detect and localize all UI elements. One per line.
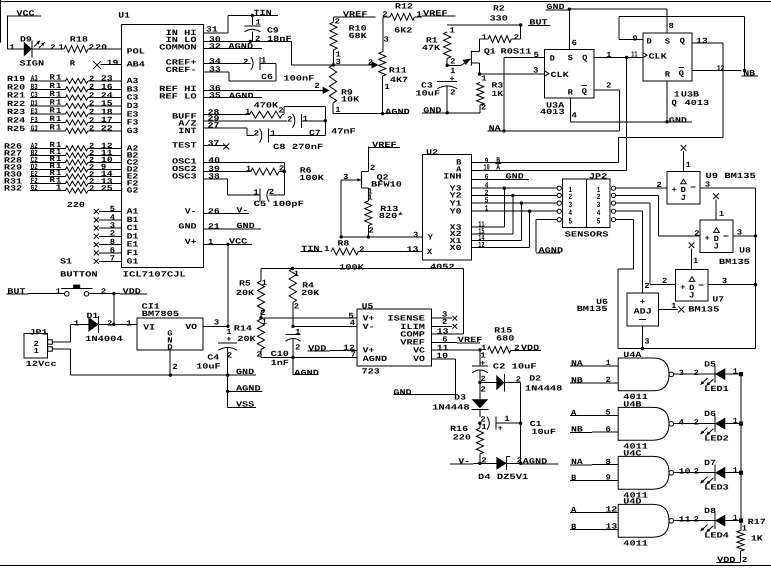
- svg-text:+: +: [680, 284, 686, 293]
- wire JP1 pin 1 to GND rail: [52, 349, 256, 375]
- wire V- row: [474, 462, 497, 464]
- svg-text:R14: R14: [234, 325, 253, 334]
- svg-text:NB: NB: [571, 376, 583, 385]
- svg-text:10: 10: [484, 164, 490, 173]
- junction gate/Y: [340, 235, 343, 238]
- svg-text:J: J: [681, 194, 686, 203]
- svg-text:JP2: JP2: [589, 172, 608, 181]
- svg-text:10uF: 10uF: [531, 428, 556, 437]
- resistor R17 1K: [737, 518, 766, 565]
- svg-text:2: 2: [89, 43, 95, 52]
- power label GND (U1 pin 21): [204, 222, 261, 232]
- svg-text:12: 12: [343, 344, 355, 353]
- svg-text:TIN: TIN: [301, 245, 320, 254]
- svg-text:G3: G3: [127, 127, 139, 136]
- no-connect U1 pin 2 D1: [94, 230, 122, 239]
- wire U4B output pin 4 to D6: [673, 418, 715, 427]
- svg-text:11: 11: [679, 516, 691, 525]
- wire U7 pin 3 to rail: [708, 277, 757, 286]
- power label VREF (R12 right): [422, 10, 456, 19]
- wire D6 to LED rail: [725, 417, 741, 426]
- wire JP2 pin 2 to U8: [616, 195, 700, 238]
- svg-text:31: 31: [206, 26, 218, 35]
- svg-text:18nF: 18nF: [267, 35, 292, 44]
- junction C7/R7/C8 node: [270, 119, 327, 135]
- svg-text:10: 10: [679, 468, 691, 477]
- junction Y3/X3: [503, 187, 506, 228]
- junction VC/C2: [478, 348, 481, 351]
- svg-text:R12: R12: [395, 2, 414, 11]
- wire U3B pin 12 Qbar to NB: [692, 64, 741, 73]
- wire U3A pin 5 D from NA: [504, 51, 545, 131]
- svg-text:S1: S1: [60, 258, 72, 267]
- wire U9 pin 3 to rail: [700, 180, 756, 189]
- svg-text:BUTTON: BUTTON: [60, 270, 98, 279]
- svg-text:5: 5: [569, 217, 573, 226]
- svg-text:1: 1: [485, 205, 489, 214]
- svg-text:13: 13: [606, 522, 618, 531]
- connector JP2 SENSORS: [557, 172, 616, 239]
- power label AGND (U5): [293, 357, 320, 378]
- svg-text:VDD: VDD: [308, 344, 327, 353]
- power label VDD (R17): [716, 556, 740, 565]
- resistor R16 220: [450, 423, 487, 466]
- junction R16/V-: [478, 462, 481, 465]
- svg-text:2: 2: [694, 369, 700, 378]
- svg-text:4: 4: [679, 419, 685, 428]
- junction C3/GND: [446, 111, 449, 114]
- wire Q1 collector node to U3A CLK pin 3: [480, 66, 545, 75]
- svg-text:2: 2: [294, 302, 300, 311]
- svg-text:9: 9: [632, 34, 638, 43]
- resistor R27 (net B2 to U1 pin 11): [4, 148, 121, 159]
- svg-text:4052: 4052: [430, 263, 455, 272]
- svg-text:47K: 47K: [422, 44, 441, 53]
- svg-text:D2: D2: [529, 375, 541, 384]
- junction LED rail D5: [739, 372, 743, 376]
- svg-text:5: 5: [597, 217, 601, 226]
- power label VDD (U5 pin 12): [308, 344, 357, 353]
- svg-text:1: 1: [253, 189, 259, 198]
- svg-text:8: 8: [669, 22, 675, 31]
- svg-text:U7: U7: [712, 295, 724, 304]
- ic U2 4052: [422, 148, 471, 272]
- svg-text:1: 1: [686, 161, 692, 170]
- svg-text:INT: INT: [178, 127, 197, 136]
- power label VREF (R10 top): [334, 10, 376, 19]
- junction LED rail D8: [739, 519, 743, 523]
- resistor R3 1K: [477, 74, 504, 113]
- svg-text:2: 2: [694, 515, 700, 524]
- svg-text:U4C: U4C: [623, 450, 642, 459]
- svg-text:REF LO: REF LO: [159, 93, 197, 102]
- switch S1 BUTTON label: [60, 258, 98, 280]
- svg-text:2: 2: [606, 82, 612, 91]
- svg-text:12: 12: [717, 64, 725, 73]
- svg-text:OSC3: OSC3: [172, 172, 197, 181]
- svg-text:2: 2: [295, 344, 301, 353]
- wire U2 Y0 pin 1 to JP2: [471, 205, 557, 214]
- junction R6/OSC1/C5: [283, 170, 286, 195]
- wire U3B pin 1 R to GND: [666, 81, 668, 122]
- svg-text:AB4: AB4: [127, 61, 146, 70]
- junction TIN / C9: [251, 14, 254, 17]
- diode D3 1N4448: [432, 382, 488, 417]
- resistor R6 100K (OSC1-OSC2): [204, 164, 325, 183]
- resistor R13 820*: [365, 194, 404, 237]
- svg-text:B: B: [571, 523, 577, 532]
- wire LED common rail: [740, 374, 742, 530]
- wire U3B pin 9 D feedback: [619, 16, 745, 70]
- resistor R7 470K (pin 28 BUFF): [204, 102, 326, 121]
- wire U1 pin 34 CREF+ to C6: [204, 58, 251, 67]
- svg-text:2: 2: [481, 104, 487, 113]
- svg-text:2: 2: [606, 376, 612, 385]
- diode D1 1N4004: [85, 312, 123, 344]
- junction GND/U3A S: [568, 8, 571, 11]
- svg-text:6K2: 6K2: [394, 27, 413, 36]
- resistor R1 47K: [422, 32, 456, 67]
- nand gate U4C 4011: [618, 450, 673, 501]
- svg-text:12: 12: [606, 506, 618, 515]
- svg-text:12Vcc: 12Vcc: [26, 360, 57, 369]
- svg-text:D: D: [550, 55, 556, 64]
- svg-text:VO: VO: [185, 323, 197, 332]
- resistor R2 330: [480, 5, 521, 43]
- svg-text:R: R: [568, 89, 574, 98]
- junction Y2/X2: [511, 194, 514, 234]
- svg-text:10uF: 10uF: [416, 90, 441, 99]
- svg-text:1N4448: 1N4448: [525, 385, 563, 394]
- junction LED rail D7: [739, 471, 743, 475]
- svg-text:7: 7: [110, 255, 116, 264]
- capacitor C10 1nF: [271, 328, 301, 368]
- led D6 LED2: [701, 410, 730, 444]
- no-connect U9 pin 1: [681, 145, 691, 171]
- net label V- (U1 pin 26): [204, 207, 249, 217]
- wire U1 pin 30 IN LO to R10/R11 node: [204, 35, 334, 65]
- resistor R23 (net E3 to U1 pin 18): [7, 107, 121, 118]
- svg-text:LED3: LED3: [704, 484, 729, 493]
- power label AGND (bottom): [226, 384, 262, 393]
- capacitor C6 100nF: [243, 57, 315, 84]
- resistor R5 20K: [236, 268, 267, 318]
- svg-text:10K: 10K: [341, 96, 360, 105]
- svg-text:27: 27: [208, 122, 220, 131]
- wire C6 to U1 pin 33 CREF-: [204, 64, 277, 82]
- svg-text:1: 1: [261, 57, 267, 66]
- resistor R22 (net D3 to U1 pin 15): [7, 98, 121, 109]
- svg-text:2: 2: [742, 556, 748, 565]
- svg-text:25: 25: [101, 184, 113, 193]
- svg-text:2: 2: [172, 363, 178, 372]
- sensor U8 BM135: [700, 220, 751, 267]
- wire U1 pin 36 REF HI to R9 wiper: [204, 84, 324, 93]
- resistor R25 (net G3 to U1 pin 22): [7, 123, 121, 134]
- svg-text:38: 38: [208, 173, 220, 182]
- svg-text:13: 13: [407, 246, 419, 255]
- wire GND to U3A pin 6 S: [569, 9, 577, 49]
- wire U3A pin 2 Qbar to NA: [594, 82, 619, 131]
- svg-text:220: 220: [67, 201, 86, 210]
- svg-text:10: 10: [436, 352, 448, 361]
- svg-text:1: 1: [482, 34, 488, 43]
- svg-text:R11: R11: [389, 66, 408, 75]
- svg-text:4013: 4013: [540, 108, 565, 117]
- svg-text:220: 220: [453, 433, 472, 442]
- net label BUT (top right): [528, 19, 550, 28]
- svg-text:3: 3: [336, 58, 342, 67]
- svg-text:1: 1: [693, 257, 699, 266]
- svg-text:AGND: AGND: [539, 246, 564, 255]
- junction D4/AGND: [519, 462, 522, 465]
- svg-text:SIGN: SIGN: [20, 60, 45, 69]
- wire R18 to U1 pin 20 POL: [88, 43, 121, 52]
- svg-text:G2: G2: [127, 187, 139, 196]
- resistor R4 20K: [289, 268, 320, 326]
- junction LED rail D6: [739, 422, 743, 426]
- no-connect U8 pin 1: [713, 193, 724, 220]
- svg-text:3: 3: [722, 277, 728, 286]
- resistor R24 (net F3 to U1 pin 17): [7, 115, 121, 126]
- svg-text:NA: NA: [571, 360, 583, 369]
- svg-text:G3: G3: [31, 124, 38, 133]
- no-connect U1 pin 3 C1: [94, 221, 122, 230]
- svg-text:AGND: AGND: [236, 384, 261, 393]
- resistor R12 6K2: [382, 2, 422, 35]
- junction Y0/X0: [528, 210, 531, 248]
- svg-text:JP1: JP1: [29, 328, 48, 337]
- wire compensation rail R5/R4/COMP: [261, 267, 464, 269]
- svg-text:D4 DZ5V1: D4 DZ5V1: [478, 473, 529, 482]
- junction R1/C3/Q1 emitter: [446, 64, 456, 76]
- svg-text:D3: D3: [454, 394, 466, 403]
- svg-text:AGND: AGND: [385, 108, 410, 117]
- svg-text:4K7: 4K7: [390, 76, 409, 85]
- wire D8 to LED rail: [725, 514, 741, 523]
- wire U5 pin 4 V-: [293, 319, 357, 328]
- svg-text:1K: 1K: [491, 90, 503, 99]
- wire R8 to U2 pin 13 X: [358, 246, 422, 255]
- svg-text:CLK: CLK: [551, 71, 570, 80]
- svg-text:3: 3: [705, 180, 711, 189]
- junction U3B R/GND: [665, 120, 668, 123]
- svg-text:10uF: 10uF: [196, 362, 221, 371]
- svg-text:2: 2: [255, 35, 261, 44]
- net label NB (U3B): [741, 69, 758, 78]
- svg-text:X: X: [427, 248, 433, 257]
- junction C1/D2/D4: [519, 422, 522, 464]
- flip-flop U3B 4013: [643, 33, 710, 108]
- no-connect U1 pin 7 G1: [94, 255, 122, 264]
- no-connect U1 pin 5 A1: [94, 205, 122, 214]
- svg-text:U9 BM135: U9 BM135: [706, 172, 757, 181]
- junction VCC rail: [226, 243, 229, 246]
- svg-text:2: 2: [243, 58, 249, 67]
- wire VCC to D9: [8, 16, 24, 52]
- svg-text:V-: V-: [237, 207, 249, 216]
- svg-text:2: 2: [694, 418, 700, 427]
- transistor Q2 BFW10: [341, 147, 402, 201]
- svg-text:S: S: [665, 38, 671, 47]
- svg-text:B: B: [571, 474, 577, 483]
- capacitor C4 10uF: [196, 328, 237, 408]
- svg-text:V-: V-: [185, 207, 197, 216]
- svg-text:NB: NB: [571, 426, 583, 435]
- net label TIN (R8): [300, 245, 322, 254]
- resistor R14 20K: [234, 318, 267, 360]
- nand gate U4A 4011: [618, 351, 673, 402]
- svg-text:U8: U8: [739, 247, 751, 256]
- svg-text:BFW10: BFW10: [371, 181, 402, 190]
- wire JP2 pin 1 to U9: [616, 181, 667, 190]
- wire sensor common rail: [618, 188, 756, 349]
- wire AGND rail to U5 pin 7: [261, 351, 357, 360]
- svg-text:U4A: U4A: [623, 351, 642, 360]
- diode D2 1N4448: [480, 374, 563, 394]
- svg-text:35: 35: [209, 92, 221, 101]
- no-connect U1 pin 8 E1: [94, 238, 122, 247]
- svg-text:VDD: VDD: [717, 556, 736, 565]
- power label VCC: [7, 10, 41, 19]
- svg-text:2: 2: [101, 288, 107, 297]
- wire U5 pin 11 VC to R15: [431, 344, 480, 353]
- net label NA (U4C pin 8): [570, 458, 618, 467]
- svg-text:2: 2: [314, 82, 320, 91]
- svg-text:AGND: AGND: [294, 369, 319, 378]
- svg-text:Q: Q: [582, 88, 588, 97]
- svg-text:100K: 100K: [299, 174, 324, 183]
- svg-text:R32: R32: [4, 185, 23, 194]
- wire U8 pin 3 to rail: [733, 229, 757, 238]
- wire IN LO node to R11 wiper: [334, 59, 379, 69]
- svg-text:2: 2: [442, 318, 448, 327]
- svg-text:R0S11: R0S11: [501, 48, 532, 57]
- svg-text:1: 1: [733, 514, 739, 523]
- sensor U7 BM135: [676, 270, 725, 315]
- svg-text:CREF-: CREF-: [166, 66, 197, 75]
- capacitor C2 10uF: [472, 350, 537, 384]
- svg-text:U5: U5: [362, 302, 374, 311]
- svg-text:2: 2: [287, 115, 293, 124]
- svg-text:R: R: [70, 59, 76, 68]
- regulator CI1 BM7805: [137, 303, 203, 353]
- svg-text:SENSORS: SENSORS: [565, 231, 609, 240]
- power label VCC (U1 pin 1 V+): [204, 238, 253, 248]
- no-connect U7 pin 1: [689, 242, 699, 269]
- net label TIN top: [228, 9, 278, 18]
- junction BUT/R2: [519, 23, 522, 26]
- junction GND rail / C4: [226, 373, 229, 376]
- wire U5 pin 5 V+: [261, 312, 357, 321]
- power label AGND (JP2): [536, 246, 563, 255]
- no-connect U5 pin 2 ILIM: [431, 318, 457, 329]
- svg-text:2: 2: [694, 230, 700, 239]
- wire U1 pin 32 COMMON to AGND: [204, 43, 262, 52]
- wire D1 cathode to CI1 VI: [99, 319, 137, 328]
- svg-text:4: 4: [350, 319, 356, 328]
- svg-text:723: 723: [362, 368, 381, 377]
- svg-text:1: 1: [324, 245, 330, 254]
- sensor U6 BM135 ADJ: [577, 293, 659, 326]
- wire JP2 left pin 5 to AGND: [536, 220, 557, 253]
- svg-text:1: 1: [671, 302, 677, 311]
- svg-text:5: 5: [534, 51, 540, 60]
- wire U2 X3 pin 11: [471, 221, 504, 230]
- wire GND to U3B pin 8 S: [569, 9, 674, 33]
- svg-text:VSS: VSS: [236, 400, 255, 409]
- svg-text:S: S: [568, 54, 574, 63]
- wire U2 X2 pin 15: [471, 227, 513, 236]
- resistor R30 (net E2 to U1 pin 14): [4, 169, 121, 180]
- wire U2 Y2 pin 2 to JP2: [471, 189, 557, 198]
- svg-text:1N4448: 1N4448: [432, 403, 470, 412]
- net label V- (D4): [450, 457, 474, 466]
- svg-text:V-: V-: [363, 323, 375, 332]
- svg-text:VCC: VCC: [229, 238, 248, 247]
- svg-text:12: 12: [478, 241, 484, 250]
- svg-text:COMMON: COMMON: [159, 43, 197, 52]
- no-connect U6 pin 1: [659, 302, 685, 312]
- svg-text:1: 1: [606, 51, 612, 60]
- svg-text:VCC: VCC: [16, 10, 35, 19]
- svg-text:R5: R5: [239, 280, 251, 289]
- power label GND (C3/R3): [422, 106, 480, 115]
- svg-text:3: 3: [214, 319, 220, 328]
- resistor R32 (net G2 to U1 pin 25): [4, 183, 121, 193]
- wire U3A pin 4 R to GND: [571, 98, 667, 122]
- svg-text:100nF: 100nF: [283, 74, 314, 83]
- svg-text:BUT: BUT: [7, 288, 26, 297]
- svg-text:Q1: Q1: [484, 48, 496, 57]
- svg-text:1: 1: [719, 210, 725, 219]
- led D8 LED4: [701, 507, 730, 541]
- junction NB/D feedback: [743, 69, 746, 72]
- svg-text:3: 3: [737, 229, 743, 238]
- svg-text:+: +: [449, 75, 455, 84]
- wire U3B pin 13 Q to B net: [618, 37, 723, 163]
- svg-text:G2: G2: [31, 184, 38, 193]
- svg-text:2: 2: [694, 468, 700, 477]
- svg-text:3: 3: [384, 35, 390, 44]
- wire NA net: [504, 130, 619, 132]
- svg-text:TIN: TIN: [254, 9, 273, 18]
- svg-text:1nF: 1nF: [271, 359, 290, 368]
- wire U5 pin 6 VREF: [431, 336, 457, 345]
- power label GND (bottom): [236, 368, 255, 377]
- power label VDD (S1): [120, 288, 147, 297]
- wire JP2 pin 3 to U7: [616, 203, 676, 286]
- svg-text:680: 680: [496, 334, 515, 343]
- svg-text:2: 2: [89, 125, 95, 134]
- value label 220 for R19-R32: [67, 201, 86, 210]
- svg-text:GND: GND: [546, 3, 565, 12]
- wire U4C output pin 10 to D7: [673, 468, 715, 477]
- capacitor C7 47nF: [287, 114, 356, 138]
- wire D5 to LED rail: [725, 368, 741, 377]
- power label VREF (Q2 drain): [368, 141, 400, 150]
- svg-text:2: 2: [481, 385, 487, 394]
- svg-text:1: 1: [34, 347, 40, 356]
- svg-text:1: 1: [733, 466, 739, 475]
- svg-text:11: 11: [631, 50, 637, 59]
- svg-text:VO: VO: [413, 355, 425, 364]
- power label GND (U3 reset): [667, 116, 692, 125]
- svg-text:20K: 20K: [301, 289, 320, 298]
- svg-text:3: 3: [644, 337, 650, 346]
- net label BUT (left): [7, 288, 29, 297]
- svg-text:3: 3: [343, 173, 349, 182]
